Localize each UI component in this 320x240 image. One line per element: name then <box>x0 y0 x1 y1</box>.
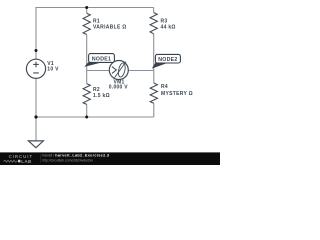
resistor R3 <box>150 13 157 34</box>
voltmeter VM1 <box>109 61 128 80</box>
svg-text:10 V: 10 V <box>47 66 59 72</box>
junction dot R2 bottom rail <box>85 116 88 119</box>
label R3 value <box>161 19 176 31</box>
junction dot bottom rail ground <box>34 115 37 118</box>
label VM1 value <box>109 79 128 90</box>
footer logo squiggle <box>4 160 18 162</box>
svg-text:44 kΩ: 44 kΩ <box>161 25 176 31</box>
svg-text:0.000 V: 0.000 V <box>109 85 128 91</box>
wire V1 top stub <box>35 51 37 60</box>
resistor R2 <box>83 84 90 105</box>
ground <box>28 141 43 148</box>
resistor R1 <box>83 13 90 34</box>
wire R4 bottom bend <box>153 103 155 117</box>
wire right column top bend <box>153 8 155 13</box>
svg-text:VARIABLE Ω: VARIABLE Ω <box>93 25 127 31</box>
wire R2 bottom lead <box>86 104 88 117</box>
wire left column upper <box>35 7 37 51</box>
wire R3 bottom to node B <box>153 34 155 70</box>
wire ground stem <box>35 117 37 141</box>
svg-text:http://circuitlab.com/c6624vdw: http://circuitlab.com/c6624vdw2xn <box>42 159 93 163</box>
wire top rail <box>36 7 154 9</box>
wire voltmeter right to node B <box>128 70 154 72</box>
wire R1 bottom to node A <box>86 35 88 71</box>
wire bottom rail <box>36 116 154 118</box>
footer divider <box>40 154 42 163</box>
label R2 value <box>93 87 110 99</box>
svg-text:NODE2: NODE2 <box>158 57 177 63</box>
resistor R4 <box>150 83 157 103</box>
footer logo icon <box>18 160 21 163</box>
footer bar <box>0 152 220 165</box>
label R4 value <box>161 84 193 97</box>
wire left column lower <box>35 78 37 117</box>
wire node A to R2 <box>86 70 88 84</box>
junction dot V1 top terminal <box>35 49 38 52</box>
svg-text:harveit / harveit_Lab2_Exercis: harveit / harveit_Lab2_Exercise2.3 <box>42 153 109 157</box>
svg-text:NODE1: NODE1 <box>92 56 111 62</box>
voltage source V1 <box>26 59 45 78</box>
wire R1 top lead <box>86 7 88 13</box>
label R1 value <box>93 19 127 31</box>
junction dot R1 top rail <box>85 6 88 9</box>
wire node A to voltmeter left <box>87 70 110 72</box>
svg-text:LAB: LAB <box>21 159 32 164</box>
svg-text:1.5 kΩ: 1.5 kΩ <box>93 93 110 99</box>
node NODE2 flag <box>152 54 181 68</box>
svg-text:R4: R4 <box>161 84 168 90</box>
label V1 value <box>47 61 59 72</box>
node NODE1 flag <box>84 54 114 67</box>
svg-text:MYSTERY Ω: MYSTERY Ω <box>161 91 193 97</box>
wire node B to R4 <box>153 70 155 83</box>
